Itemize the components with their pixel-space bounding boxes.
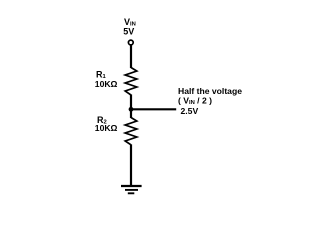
svg-text:10KΩ: 10KΩ xyxy=(95,79,118,89)
wire VIN to R1 xyxy=(130,45,132,68)
wire R2 to ground xyxy=(130,144,132,186)
ground xyxy=(121,186,142,193)
wire node to output tap xyxy=(131,108,176,110)
svg-text:( VIN / 2 ): ( VIN / 2 ) xyxy=(178,96,212,107)
node VIN terminal xyxy=(128,40,133,45)
resistor R2 xyxy=(125,118,137,145)
svg-text:5V: 5V xyxy=(123,26,134,36)
svg-text:Half the voltage: Half the voltage xyxy=(178,86,242,96)
svg-text:10KΩ: 10KΩ xyxy=(95,123,118,133)
resistor R1 xyxy=(125,68,137,96)
wire R1 to node xyxy=(130,95,132,111)
junction node Vout xyxy=(129,107,134,112)
svg-text:2.5V: 2.5V xyxy=(181,106,199,116)
wire node to R2 xyxy=(130,108,132,118)
